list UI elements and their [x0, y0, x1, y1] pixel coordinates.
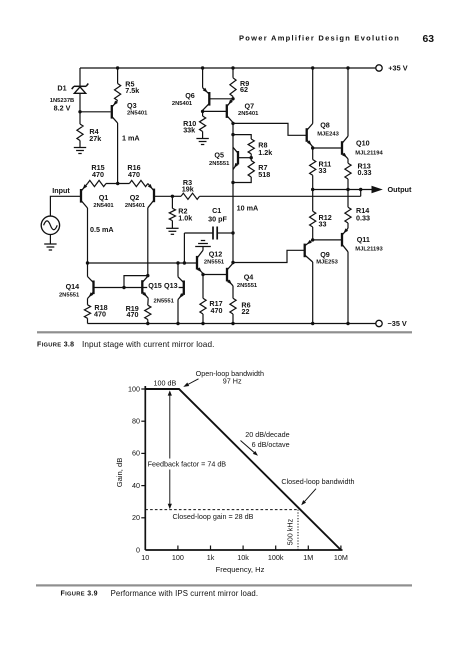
resistor R6 22 — [232, 286, 234, 299]
resistor R2 1.0k — [171, 196, 173, 208]
svg-text:6 dB/octave: 6 dB/octave — [252, 440, 290, 449]
svg-text:Q1: Q1 — [99, 193, 109, 202]
svg-text:1.2k: 1.2k — [258, 148, 272, 157]
wire node to Q7 base — [203, 110, 227, 112]
resistor R19 470 — [145, 305, 151, 319]
graph 500kHz dotted line — [297, 510, 299, 550]
svg-text:Q3: Q3 — [127, 101, 137, 110]
resistor R15 470 — [88, 180, 107, 186]
input source — [41, 216, 59, 234]
transistor Q1 2N5401 — [80, 189, 82, 203]
svg-text:33: 33 — [319, 166, 327, 175]
wire Q2 collector down — [147, 208, 149, 276]
svg-text:2N5401: 2N5401 — [93, 203, 114, 209]
svg-text:0.33: 0.33 — [356, 214, 370, 223]
transistor Q9 MJE253 — [304, 244, 306, 258]
wire mirror base rail — [94, 287, 184, 289]
figure 3.8 rule — [37, 331, 412, 333]
svg-text:Output: Output — [388, 185, 412, 194]
svg-text:Q11: Q11 — [357, 235, 370, 244]
transistor Q13 2N5551 — [183, 281, 185, 295]
resistor R10 33k — [202, 111, 204, 116]
transistor Q14 2N5551 — [92, 281, 94, 295]
svg-text:2N5551: 2N5551 — [59, 292, 80, 298]
wire R19 to rail — [147, 320, 149, 324]
svg-text:33: 33 — [319, 220, 327, 229]
svg-text:470: 470 — [211, 306, 223, 315]
node R9/Q7 emitter — [231, 97, 234, 100]
wire Q10 collector to rail — [347, 68, 349, 136]
graph y-axis — [144, 386, 146, 550]
wire output line — [313, 189, 372, 191]
transistor Q15 2N5551 — [141, 280, 143, 294]
svg-text:Closed-loop bandwidth: Closed-loop bandwidth — [281, 477, 354, 486]
svg-text:2N5401: 2N5401 — [238, 111, 259, 117]
resistor R14 0.33 — [347, 190, 349, 208]
graph closed-loop bw arrow — [303, 489, 317, 504]
wire Q1 collector down — [87, 208, 89, 263]
svg-text:Q9: Q9 — [320, 250, 330, 259]
ground input source — [44, 243, 56, 245]
svg-text:100: 100 — [172, 553, 184, 562]
transistor Q12 2N5551 — [196, 256, 198, 270]
svg-text:100: 100 — [128, 384, 140, 393]
svg-text:500 kHz: 500 kHz — [286, 518, 295, 545]
svg-text:22: 22 — [242, 307, 250, 316]
svg-text:30 pF: 30 pF — [208, 214, 227, 223]
wire Q15 emitter to R19 — [147, 298, 149, 305]
transistor Q8 MJE243 — [306, 128, 308, 142]
node R12/Q9 emitter/Q11 base — [311, 238, 314, 241]
svg-text:MJL21194: MJL21194 — [355, 150, 383, 156]
node base rail/step — [122, 286, 125, 289]
transistor Q5 2N5551 — [237, 151, 239, 165]
wire R9 top — [232, 68, 234, 78]
svg-text:470: 470 — [92, 170, 104, 179]
svg-text:Q4: Q4 — [244, 273, 254, 282]
wire Q11 collector to rail — [347, 252, 349, 324]
node Q8 emitter — [311, 146, 314, 149]
wire R7 bottom to spreader bottom — [233, 177, 251, 183]
svg-text:1M: 1M — [303, 553, 313, 562]
ground R4 — [74, 147, 86, 149]
svg-text:Q14: Q14 — [66, 282, 80, 291]
capacitor C1 30pF — [212, 227, 214, 240]
svg-text:Q10: Q10 — [356, 139, 370, 148]
svg-text:2N5401: 2N5401 — [127, 111, 148, 117]
svg-text:Feedback factor = 74 dB: Feedback factor = 74 dB — [148, 459, 227, 468]
ground R2 — [166, 227, 178, 229]
node Q2 collector/Q15 collector — [146, 274, 149, 277]
svg-text:Gain, dB: Gain, dB — [115, 458, 124, 488]
transistor Q4 2N5551 — [226, 268, 228, 282]
resistor R16 470 — [129, 180, 148, 186]
resistor R11 33 — [312, 148, 314, 160]
terminal +35V — [376, 65, 382, 71]
wire Q8 emitter to Q10 base — [313, 147, 342, 149]
wire mirror output to Q12 base — [88, 262, 198, 264]
svg-text:2N5551: 2N5551 — [237, 283, 258, 289]
wire Q12 emitter node to Q4 base — [203, 274, 227, 276]
ground R10 — [196, 138, 208, 140]
svg-text:97 Hz: 97 Hz — [223, 376, 242, 385]
svg-text:2N5401: 2N5401 — [125, 203, 146, 209]
svg-text:1.0k: 1.0k — [178, 213, 192, 222]
svg-text:20 dB/decade: 20 dB/decade — [245, 430, 289, 439]
wire Q11 base — [313, 239, 342, 241]
wire Q13 emitter to rail — [177, 300, 179, 324]
graph feedback factor arrow — [169, 393, 171, 509]
wire Q3 collector to tail — [117, 123, 119, 184]
svg-text:Q2: Q2 — [130, 193, 140, 202]
svg-text:0.33: 0.33 — [358, 168, 372, 177]
wire D1 top — [79, 68, 81, 86]
svg-text:FIGURE 3.8: FIGURE 3.8 — [37, 341, 74, 348]
svg-text:40: 40 — [132, 481, 140, 490]
terminal -35V — [376, 320, 382, 326]
node Q4 collector/Q9 branch — [231, 261, 234, 264]
svg-text:Power Amplifier Design Evoluti: Power Amplifier Design Evolution — [239, 34, 400, 43]
svg-text:FIGURE 3.9: FIGURE 3.9 — [61, 591, 98, 598]
svg-text:MJE253: MJE253 — [316, 259, 338, 265]
svg-text:+35 V: +35 V — [388, 63, 407, 72]
svg-text:Q6: Q6 — [185, 91, 195, 100]
node R8/R7/Q5 base — [250, 156, 253, 159]
svg-text:Performance with IPS current m: Performance with IPS current mirror load… — [111, 589, 259, 598]
wire Q9 collector to rail — [312, 262, 314, 324]
wire helper step — [124, 276, 148, 288]
resistor R8 1.2k — [248, 139, 254, 154]
wire Q8 base jog — [233, 123, 307, 135]
svg-text:19k: 19k — [182, 185, 194, 194]
svg-text:Q15: Q15 — [148, 281, 162, 290]
wire R13 to output line — [347, 179, 349, 190]
node C1 right — [231, 231, 234, 234]
wire Q5 base — [238, 157, 251, 159]
figure 3.9 rule — [36, 584, 412, 586]
wire Q6 base to R9 node — [209, 98, 233, 100]
node C1 left — [183, 261, 186, 264]
svg-text:Input stage with current mirro: Input stage with current mirror load. — [82, 340, 214, 349]
wire R2 to ground — [171, 221, 173, 229]
svg-text:Input: Input — [52, 186, 70, 195]
transistor Q10 MJL21194 — [341, 141, 343, 155]
svg-text:60: 60 — [132, 449, 140, 458]
svg-text:470: 470 — [127, 310, 139, 319]
resistor R3 19k — [172, 195, 181, 197]
node Q7 collector/Q8 branch — [231, 122, 234, 125]
wire VAS column — [232, 123, 234, 263]
svg-text:Q7: Q7 — [245, 102, 255, 111]
node spreader bottom — [231, 181, 234, 184]
transistor Q3 2N5401 — [111, 105, 113, 119]
svg-text:8.2 V: 8.2 V — [54, 103, 71, 112]
node spreader top — [231, 133, 234, 136]
wire top +35V rail — [80, 67, 376, 69]
graph closed-loop gain dashed line — [145, 509, 298, 511]
svg-text:Closed-loop gain = 28 dB: Closed-loop gain = 28 dB — [173, 512, 254, 521]
wire R17 to rail — [202, 314, 204, 324]
resistor R7 518 — [250, 158, 252, 161]
node Q6 collector/R10 — [201, 110, 204, 113]
svg-text:7.5k: 7.5k — [125, 86, 139, 95]
resistor R13 0.33 — [347, 159, 349, 163]
node Q12 emitter/Q4 base — [201, 273, 204, 276]
wire D1 to node — [79, 93, 81, 124]
svg-text:MJE243: MJE243 — [317, 132, 339, 138]
svg-text:470: 470 — [128, 170, 140, 179]
graph open-loop response curve — [145, 389, 341, 550]
graph open-loop arrow — [185, 379, 199, 386]
resistor R17 470 — [202, 275, 204, 299]
wire spreader top to R8 — [233, 135, 251, 139]
svg-text:Q5: Q5 — [214, 151, 224, 160]
svg-text:1 mA: 1 mA — [122, 133, 140, 142]
wire tail — [106, 183, 129, 185]
svg-text:2N5551: 2N5551 — [209, 161, 230, 167]
svg-text:0.5 mA: 0.5 mA — [90, 225, 114, 234]
wire bottom -35V rail — [88, 323, 376, 325]
wire R4 to ground — [79, 141, 81, 148]
svg-text:Q8: Q8 — [320, 120, 330, 129]
svg-text:Frequency, Hz: Frequency, Hz — [216, 565, 265, 574]
output arrow — [372, 186, 383, 194]
wire input to Q1 base — [50, 196, 81, 216]
wire Q14 collector up — [87, 263, 89, 277]
zener diode D1 — [74, 85, 86, 87]
svg-text:63: 63 — [423, 34, 435, 45]
wire Q8 collector to rail — [312, 68, 314, 124]
node feedback takeoff — [359, 188, 362, 191]
resistor R4 27k — [77, 124, 83, 141]
wire Q6 emitter from rail — [202, 68, 204, 88]
resistor R9 62 — [230, 78, 236, 97]
wire Q12 collector to ground — [202, 247, 204, 251]
wire R6 to rail — [232, 314, 234, 324]
svg-text:518: 518 — [258, 170, 270, 179]
svg-text:2N5551: 2N5551 — [154, 299, 175, 305]
resistor R12 33 — [312, 190, 314, 212]
svg-text:−35 V: −35 V — [388, 319, 407, 328]
svg-text:470: 470 — [94, 309, 106, 318]
svg-text:1k: 1k — [207, 553, 215, 562]
wire Q9 base jog — [233, 250, 305, 262]
graph y ticks and labels — [141, 388, 145, 390]
transistor Q11 MJL21193 — [341, 233, 343, 247]
wire Q2 base to feedback node — [154, 195, 172, 197]
wire Q13 collector up — [177, 263, 179, 277]
wire R18 to rail — [87, 318, 89, 323]
resistor R18 470 — [84, 305, 90, 319]
resistor R5 7.5k — [115, 84, 121, 101]
graph slope arrow — [241, 441, 257, 455]
svg-text:Q13: Q13 — [164, 281, 178, 290]
transistor Q7 2N5401 — [226, 104, 228, 118]
svg-text:27k: 27k — [89, 134, 101, 143]
svg-text:33k: 33k — [183, 126, 195, 135]
svg-text:Q12: Q12 — [209, 250, 223, 259]
wire feedback line to output — [200, 195, 361, 197]
wire R11 to output line — [312, 175, 314, 189]
svg-text:D1: D1 — [57, 83, 66, 92]
wire Q6 collector to node — [202, 110, 204, 111]
wire R10 to ground — [202, 132, 204, 139]
svg-text:10M: 10M — [334, 553, 348, 562]
svg-text:10 mA: 10 mA — [237, 203, 259, 212]
svg-text:62: 62 — [240, 85, 248, 94]
node Q13 collector — [176, 261, 179, 264]
ground Q12 collector — [195, 246, 211, 248]
graph feedback factor label — [147, 459, 229, 470]
wire Q14 emitter to R18 — [87, 299, 89, 305]
node Q1 collector/Q14 — [86, 261, 89, 264]
graph x-axis — [145, 549, 342, 551]
svg-text:20: 20 — [132, 513, 140, 522]
svg-text:2N5551: 2N5551 — [204, 259, 225, 265]
svg-text:100 dB: 100 dB — [154, 379, 177, 388]
node tail — [116, 182, 119, 185]
transistor Q6 2N5401 — [208, 92, 210, 106]
svg-text:MJL21193: MJL21193 — [355, 246, 383, 252]
wire Q3 base — [80, 111, 111, 113]
transistor Q2 2N5401 — [153, 189, 155, 203]
wire source to ground — [49, 235, 51, 245]
node feedback R2/R3 — [171, 195, 174, 198]
svg-text:80: 80 — [132, 417, 140, 426]
svg-text:0: 0 — [136, 545, 140, 554]
svg-text:10: 10 — [141, 553, 149, 562]
wire R5 top — [117, 68, 119, 84]
svg-text:2N5401: 2N5401 — [172, 101, 193, 107]
node D1/R4/Q3-base — [78, 110, 81, 113]
svg-text:100k: 100k — [268, 553, 284, 562]
svg-text:10k: 10k — [237, 553, 249, 562]
node R5/top-rail — [116, 66, 119, 69]
